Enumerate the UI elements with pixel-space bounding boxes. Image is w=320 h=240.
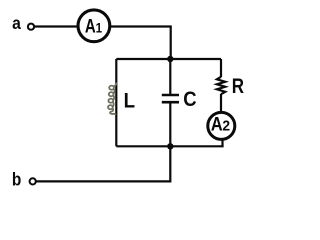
svg-text:A: A bbox=[85, 16, 96, 37]
svg-text:2: 2 bbox=[222, 118, 230, 134]
node junction top bbox=[167, 56, 173, 62]
inductor L coil bbox=[108, 83, 116, 114]
ammeter A2 bbox=[208, 112, 235, 139]
svg-text:C: C bbox=[183, 88, 196, 111]
terminal a bbox=[28, 24, 34, 30]
svg-text:b: b bbox=[12, 168, 21, 190]
wire R branch top bbox=[220, 59, 222, 77]
bottom bus wire bbox=[116, 145, 223, 147]
svg-text:L: L bbox=[124, 89, 135, 112]
capacitor C bottom wire bbox=[169, 102, 171, 146]
wire R to A2 bbox=[220, 94, 222, 112]
wire junction to bottom rail bbox=[36, 146, 170, 181]
svg-text:a: a bbox=[12, 13, 21, 33]
svg-text:A: A bbox=[211, 113, 223, 135]
terminal b bbox=[30, 178, 36, 184]
wire L branch left vertical bbox=[115, 59, 117, 146]
wire A2 to bottom bus bbox=[221, 140, 223, 146]
node junction bottom bbox=[167, 143, 173, 149]
wire A1 to top corner bbox=[111, 27, 171, 60]
wire a to A1 bbox=[34, 25, 78, 27]
svg-text:R: R bbox=[232, 76, 244, 99]
resistor R zigzag bbox=[217, 77, 225, 94]
svg-text:1: 1 bbox=[96, 19, 103, 35]
top bus wire bbox=[116, 58, 221, 60]
capacitor C plates bbox=[162, 94, 179, 97]
capacitor C branch top wire bbox=[169, 59, 171, 95]
ammeter A1 bbox=[78, 10, 110, 42]
